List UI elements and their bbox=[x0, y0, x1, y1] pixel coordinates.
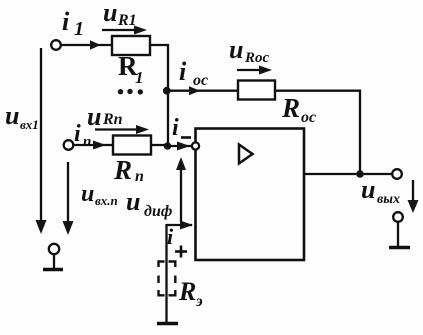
wire node to inverting input bbox=[168, 145, 192, 147]
label u_vx1 bbox=[5, 101, 39, 132]
output terminal bbox=[392, 169, 402, 179]
label u_Roc bbox=[229, 35, 270, 66]
plus sign bbox=[175, 246, 187, 258]
label i_n bbox=[74, 121, 91, 150]
wire input n to Rn bbox=[73, 144, 113, 146]
ground bar bottom bbox=[157, 322, 178, 325]
wire noninverting input bbox=[167, 225, 193, 322]
label i_oc bbox=[179, 57, 208, 89]
wire node to Roc bbox=[168, 90, 238, 92]
resistor R_e dashed bbox=[159, 262, 176, 296]
svg-text:n: n bbox=[83, 134, 91, 150]
current arrowhead i_plus bbox=[180, 221, 193, 230]
label uR1 bbox=[103, 0, 137, 29]
common ground terminal bbox=[49, 244, 59, 254]
svg-text:ос: ос bbox=[301, 109, 316, 126]
current arrowhead i_minus bbox=[177, 142, 190, 151]
voltage arrow uR1 bbox=[102, 29, 138, 31]
svg-text:u: u bbox=[229, 35, 243, 64]
svg-text:э: э bbox=[195, 293, 203, 310]
label i_minus bbox=[172, 115, 179, 141]
u_vx.n measuring line bbox=[67, 162, 69, 225]
voltage arrow u_Roc bbox=[237, 69, 263, 71]
svg-text:диф: диф bbox=[144, 203, 172, 220]
label i plus input bbox=[167, 224, 174, 249]
svg-text:1: 1 bbox=[74, 18, 84, 40]
inverting input terminal circle bbox=[192, 142, 199, 149]
wire input1 to R1 bbox=[61, 44, 113, 46]
wire to output ground bbox=[397, 222, 399, 246]
svg-text:i: i bbox=[62, 7, 70, 36]
current arrowhead i_oc bbox=[189, 86, 200, 95]
wire to ground bbox=[53, 254, 55, 268]
junction node inverting bbox=[164, 142, 172, 150]
wire R1 to inverting node bbox=[150, 45, 168, 146]
voltage arrow u_Rn bbox=[95, 128, 140, 130]
terminal input n bbox=[64, 140, 74, 150]
svg-text:вх1: вх1 bbox=[20, 117, 39, 132]
resistor Rn bbox=[113, 136, 151, 155]
svg-text:вых: вых bbox=[377, 192, 400, 207]
svg-text:u: u bbox=[361, 175, 375, 204]
wire Roc to output node bbox=[275, 91, 360, 174]
label u_dif bbox=[126, 187, 172, 220]
svg-text:u: u bbox=[103, 0, 117, 27]
label u_vyx bbox=[361, 175, 400, 207]
resistor R1 bbox=[112, 36, 150, 55]
label R_e bbox=[178, 277, 203, 310]
svg-text:i: i bbox=[74, 121, 81, 147]
label R_oc bbox=[281, 93, 316, 126]
resistor Roc bbox=[238, 81, 275, 100]
svg-text:R: R bbox=[281, 93, 300, 123]
svg-text:R: R bbox=[113, 155, 132, 185]
wire op-amp output bbox=[304, 173, 393, 175]
svg-text:вх.n: вх.n bbox=[95, 193, 118, 208]
label Rn bbox=[113, 155, 144, 185]
label u_Rn bbox=[87, 102, 123, 131]
label R1 bbox=[118, 51, 144, 87]
current arrowhead i_n bbox=[93, 141, 106, 150]
svg-text:i: i bbox=[167, 224, 174, 249]
current arrowhead i1 bbox=[90, 40, 101, 50]
u_vx1 measuring line bbox=[40, 48, 42, 224]
svg-text:u: u bbox=[81, 181, 94, 207]
ground bar bbox=[43, 268, 63, 271]
op-amp triangle symbol bbox=[239, 145, 253, 164]
dots ellipsis bbox=[118, 89, 143, 95]
label u_vx.n bbox=[81, 181, 118, 208]
output ground terminal bbox=[393, 212, 403, 222]
junction node output bbox=[356, 170, 364, 178]
svg-text:u: u bbox=[5, 101, 19, 130]
svg-text:1: 1 bbox=[135, 68, 144, 87]
svg-text:ос: ос bbox=[193, 72, 208, 89]
svg-text:i: i bbox=[179, 57, 187, 86]
svg-text:u: u bbox=[87, 102, 101, 131]
svg-text:i: i bbox=[172, 115, 179, 141]
label i1 bbox=[62, 7, 84, 40]
junction node to Roc bbox=[163, 87, 171, 95]
u_vyx arrow bbox=[412, 180, 414, 203]
terminal input 1 bbox=[51, 40, 61, 50]
op-amp box U1 bbox=[196, 129, 305, 261]
svg-text:Rn: Rn bbox=[102, 111, 123, 128]
svg-text:u: u bbox=[126, 187, 140, 216]
svg-text:Rос: Rос bbox=[244, 50, 270, 66]
svg-text:R1: R1 bbox=[117, 12, 137, 29]
svg-text:n: n bbox=[135, 168, 144, 185]
svg-text:R: R bbox=[178, 277, 196, 306]
ground bar output bbox=[389, 246, 410, 249]
wire Rn to node bbox=[151, 144, 168, 146]
u_dif arrow bbox=[180, 166, 182, 222]
